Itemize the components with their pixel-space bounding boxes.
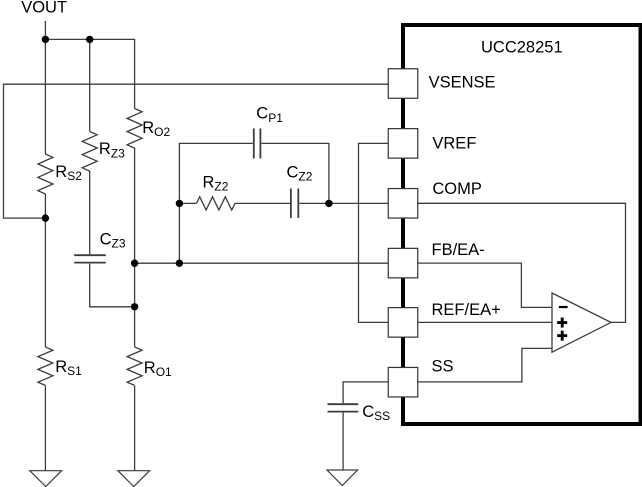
svg-text:REF/EA+: REF/EA+ [432,301,501,319]
svg-text:COMP: COMP [432,180,482,198]
svg-text:SS: SS [432,358,454,376]
svg-text:VOUT: VOUT [21,0,67,17]
svg-text:VREF: VREF [432,135,476,153]
svg-text:UCC28251: UCC28251 [481,39,563,57]
svg-text:VSENSE: VSENSE [429,74,496,92]
svg-text:FB/EA-: FB/EA- [432,241,485,259]
